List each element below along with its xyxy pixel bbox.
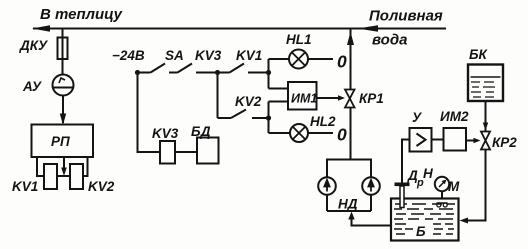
svg-text:KV1: KV1 (12, 179, 38, 194)
svg-text:вода: вода (372, 32, 407, 49)
svg-text:0: 0 (337, 52, 347, 72)
svg-text:БК: БК (469, 47, 489, 62)
svg-text:HL2: HL2 (310, 114, 336, 129)
svg-text:БД: БД (191, 124, 211, 139)
svg-text:В теплицу: В теплицу (40, 6, 123, 23)
svg-text:М: М (448, 179, 460, 194)
svg-text:KV1: KV1 (236, 48, 262, 63)
svg-text:ИМ2: ИМ2 (440, 109, 469, 124)
svg-text:ДКУ: ДКУ (19, 38, 48, 53)
svg-text:У: У (412, 110, 422, 125)
svg-text:ИМ1: ИМ1 (291, 92, 317, 106)
svg-text:KV2: KV2 (88, 179, 115, 194)
svg-text:Б: Б (416, 224, 426, 239)
svg-text:Поливная: Поливная (369, 8, 443, 25)
svg-text:Н: Н (423, 166, 433, 181)
svg-text:КР1: КР1 (359, 91, 384, 106)
svg-text:HL1: HL1 (286, 32, 312, 47)
svg-text:КР2: КР2 (492, 135, 517, 150)
svg-text:KV3: KV3 (195, 48, 222, 63)
svg-text:0: 0 (337, 125, 347, 145)
svg-text:SA: SA (165, 48, 184, 63)
svg-text:KV3: KV3 (152, 126, 179, 141)
svg-text:АУ: АУ (22, 79, 42, 94)
svg-text:KV2: KV2 (235, 94, 262, 109)
svg-text:−24В: −24В (112, 48, 145, 63)
svg-text:РП: РП (51, 134, 70, 149)
svg-text:НД: НД (338, 197, 358, 212)
